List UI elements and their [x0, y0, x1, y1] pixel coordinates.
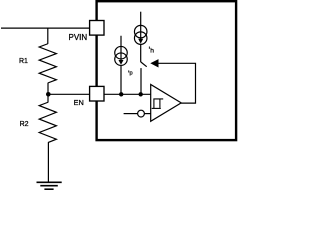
svg-text:R1: R1 [19, 58, 28, 65]
feedback arrowhead [150, 59, 158, 67]
svg-text:p: p [130, 70, 133, 76]
wire Ih to switch [140, 44, 142, 62]
inverting input bubble [138, 110, 145, 117]
inverting input stub [124, 113, 138, 115]
comparator U2 [151, 85, 182, 122]
wire bubble to comparator [144, 113, 150, 115]
wire Ip to EN net [120, 65, 122, 94]
svg-text:h: h [150, 47, 154, 54]
current source I2 (Ip) [115, 36, 128, 66]
wire switch to EN net [140, 68, 142, 94]
wire feedback [158, 63, 196, 103]
wire R2 top [47, 94, 49, 102]
svg-text:EN: EN [74, 98, 84, 107]
IC box U1 [97, 1, 237, 140]
pin PVIN [90, 21, 104, 36]
node switch junction [139, 92, 143, 96]
label Ip [127, 70, 130, 72]
hysteresis symbol [152, 99, 164, 109]
svg-text:R2: R2 [20, 121, 29, 128]
pin EN [90, 86, 104, 101]
wire R1 top [47, 28, 49, 44]
resistor R2 [39, 102, 56, 142]
wire junction to EN pin [48, 93, 90, 95]
node Ip junction [119, 92, 123, 96]
switch S1 blade [141, 62, 147, 67]
wire R2 to ground [47, 142, 49, 182]
current source I1 (Ih) [134, 12, 147, 45]
node junction R1/R2/EN [46, 92, 51, 97]
wire R1 bottom [47, 83, 49, 95]
wire input to PVIN [1, 27, 90, 29]
resistor R1 [39, 44, 56, 83]
ground [37, 182, 62, 189]
label Ih [148, 47, 151, 49]
svg-text:PVIN: PVIN [69, 33, 88, 42]
wire EN net inside box [104, 93, 151, 95]
